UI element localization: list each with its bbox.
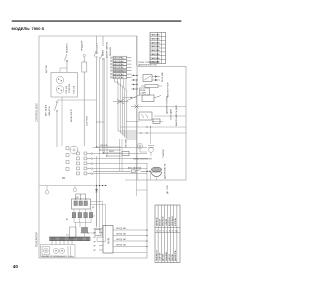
svg-text:АККУМУЛЯТОР: АККУМУЛЯТОР: [167, 82, 170, 97]
control box frame: [39, 36, 147, 258]
header rule bar: [12, 21, 182, 22]
svg-text:ГЕНЕРАТОР: ГЕНЕРАТОР: [35, 232, 39, 247]
svg-text:РАЗЪЁМ: РАЗЪЁМ: [109, 47, 112, 56]
label hourmeter wire (rotated): [86, 115, 89, 126]
diode D1 on wire: [95, 186, 98, 226]
wires CN1 to engine box: [132, 75, 138, 90]
label sockets (rotated): [69, 83, 71, 93]
lighting coil box L2: [139, 112, 152, 120]
relay box Z1: [95, 230, 101, 236]
label M4: [62, 177, 66, 180]
svg-text:ЛАМПА: ЛАМПА: [171, 254, 174, 261]
link wire y122: [96, 122, 104, 123]
svg-text:СВЕЧА ЗАЖИГАНИЯ: СВЕЧА ЗАЖИГАНИЯ: [133, 158, 152, 161]
svg-text:СТАРТ: СТАРТ: [140, 92, 147, 95]
pin block P1 column2: [77, 152, 93, 175]
svg-text:БЕЛ.КРАС: БЕЛ.КРАС: [113, 73, 124, 76]
breaker CB1: [55, 100, 97, 147]
svg-text:КРАСНЫЙ: КРАСНЫЙ: [162, 216, 165, 226]
svg-text:ЗАЩИТЫ: ЗАЩИТЫ: [48, 106, 51, 116]
capacitor C1: [80, 228, 95, 234]
wire dome down: [156, 178, 158, 181]
resistor R1: [141, 85, 162, 88]
page number 40: [13, 264, 19, 269]
svg-text:220В 30А: 220В 30А: [65, 85, 68, 94]
socket O1: [56, 76, 64, 84]
receptacle inner labels (rotated): [65, 85, 76, 94]
svg-text:ДВ. 7500: ДВ. 7500: [167, 185, 169, 194]
bottom left engine wires: [125, 180, 147, 190]
svg-text:ЗАРЯД. КАТ: ЗАРЯД. КАТ: [116, 233, 127, 236]
svg-text:СТОП ДВИГ.: СТОП ДВИГ.: [171, 108, 173, 120]
svg-text:М: М: [45, 249, 47, 253]
label bar X1: [66, 235, 69, 237]
svg-text:ПУЛЬТ УПРАВЛЕНИЯ: ПУЛЬТ УПРАВЛЕНИЯ: [138, 61, 160, 64]
svg-text:ЧЁРН: ЧЁРН: [109, 150, 115, 153]
label wires (rotated): [106, 42, 109, 58]
svg-text:СТАРТЕР: СТАРТЕР: [162, 148, 165, 158]
wire from SW1 into receptacle: [60, 68, 67, 73]
svg-text:МАССА: МАССА: [168, 254, 171, 261]
frame bottom segment: [113, 252, 147, 254]
svg-text:40: 40: [13, 264, 19, 269]
svg-text:КОРИЧН.: КОРИЧН.: [175, 217, 177, 226]
label fuse F1 (rotated): [82, 40, 84, 51]
AVR pins: [94, 228, 104, 252]
label switch SW1 (rotated): [67, 42, 69, 53]
connector bar X1 (hatched): [50, 237, 91, 241]
terminal table TB1: [150, 33, 166, 64]
svg-text:ЩИТОК: ЩИТОК: [46, 64, 48, 73]
charge coil box L1: [142, 95, 161, 102]
wire bends mid-left: [96, 146, 121, 156]
label starter (rotated): [162, 148, 165, 158]
wire bundle B1: [115, 79, 138, 139]
motor M starter: [42, 247, 50, 255]
svg-text:ЗАРЯД. КАТ: ЗАРЯД. КАТ: [116, 244, 127, 247]
svg-text:СИНИЙ: СИНИЙ: [165, 219, 168, 226]
svg-text:С1: С1: [93, 216, 95, 218]
junction X node B: [131, 105, 142, 109]
harness wires H1: [93, 148, 147, 174]
svg-text:ВЫКЛЮЧ.: ВЫКЛЮЧ.: [67, 42, 69, 53]
label rectifier: [76, 197, 79, 199]
label harness rows: [100, 144, 115, 153]
label oil sensor (rotated): [164, 163, 167, 179]
connector stack CN1: [110, 56, 131, 79]
receptacle box: [51, 73, 77, 98]
AVR box U1: [103, 226, 113, 254]
socket O2: [56, 86, 64, 94]
wire spark cluster: [140, 149, 151, 156]
wire long vertical x136: [136, 36, 138, 196]
fuse F1: [82, 54, 87, 146]
svg-text:ГЕНЕРАТОР: ГЕНЕРАТОР: [155, 249, 158, 261]
label under table: [138, 61, 160, 67]
ignition coil T1: [148, 146, 154, 153]
svg-text:12В 8.3А: 12В 8.3А: [100, 144, 108, 147]
label fuel (rotated): [166, 96, 169, 114]
wires down from bends: [104, 52, 107, 156]
junction X node A: [113, 99, 128, 104]
label diode block: [66, 207, 95, 221]
fuel valve box V1: [153, 119, 160, 124]
svg-text:ЧЁРНЫЙ: ЧЁРНЫЙ: [155, 217, 158, 226]
winding stub: [68, 246, 71, 255]
wire row y133: [137, 132, 187, 133]
svg-text:МОДЕЛЬ: 7500 S: МОДЕЛЬ: 7500 S: [12, 26, 45, 31]
label stop switch (rotated): [171, 108, 173, 120]
bus under diodes: [74, 223, 91, 228]
svg-text:РОЗЕТКИ: РОЗЕТКИ: [69, 83, 71, 93]
svg-text:АВТ. ЗАЩИТА: АВТ. ЗАЩИТА: [128, 167, 142, 170]
connector box CN3: [70, 227, 77, 238]
svg-text:БЕЛЫЙ: БЕЛЫЙ: [159, 219, 162, 226]
label switch S3 (rotated): [103, 49, 105, 56]
AVR feed corner wires: [91, 202, 106, 242]
coil wires right: [126, 107, 186, 122]
svg-text:ЗАРЯД. КАТ: ЗАРЯД. КАТ: [116, 227, 127, 230]
hour meter M1: [70, 146, 78, 154]
svg-text:Ж: Ж: [169, 230, 171, 232]
svg-text:СЧЁТЧИК: СЧЁТЧИК: [86, 115, 89, 126]
svg-text:АВТ. ВЫКЛ.: АВТ. ВЫКЛ.: [45, 104, 48, 116]
svg-text:ГЕНЕРАТОР ПЕРЕМЕННОГО ТОКА: ГЕНЕРАТОР ПЕРЕМЕННОГО ТОКА: [41, 255, 73, 258]
label wires 2 (rotated): [109, 47, 112, 56]
pin block P1 column1: [66, 147, 69, 171]
label engine model (rotated): [167, 185, 169, 194]
svg-text:АВТ.ВЫКЛ: АВТ.ВЫКЛ: [96, 43, 99, 54]
diode squares D2 D3 D4 D5: [72, 209, 93, 223]
svg-text:СЧЁТЧИК: СЧЁТЧИК: [125, 138, 128, 148]
svg-text:ЗАРЯД. КАТ: ЗАРЯД. КАТ: [116, 238, 127, 241]
label under generator: [41, 255, 73, 258]
svg-text:СТАРТЕР: СТАРТЕР: [159, 252, 162, 261]
switch SW1: [65, 54, 68, 72]
vertical wire x150 to table: [150, 127, 152, 180]
label CONTROL BOX (rotated): [35, 103, 39, 122]
svg-text:ВОЛЬТМЕТР: ВОЛЬТМЕТР: [71, 108, 73, 122]
spark plug E1: [137, 143, 142, 148]
page title МОДЕЛЬ: 7500 S: [12, 26, 45, 31]
svg-text:БЕЛ.КРАС: БЕЛ.КРАС: [113, 60, 124, 63]
svg-text:ВЫКЛЮЧАТЕЛЬ ДВИГ.: ВЫКЛЮЧАТЕЛЬ ДВИГ.: [175, 104, 178, 126]
svg-text:ДАТЧИК: ДАТЧИК: [162, 253, 165, 261]
wire bundle into box: [120, 139, 123, 171]
wire y97.5: [122, 97, 137, 98]
svg-text:ДАТЧИК ТОПЛИВА: ДАТЧИК ТОПЛИВА: [166, 96, 169, 114]
AVR right harness wires: [113, 227, 148, 247]
svg-text:220В 15А: 220В 15А: [73, 85, 76, 94]
svg-text:Д2: Д2: [92, 207, 94, 209]
label generator (rotated): [35, 232, 39, 247]
svg-text:AVR: AVR: [107, 237, 111, 244]
wire from S2 down: [96, 62, 98, 147]
svg-text:ЗЕЛЁНЫЙ: ЗЕЛЁНЫЙ: [171, 216, 174, 226]
rectifier block RB1: [72, 194, 91, 209]
label breaker CB1 (rotated): [45, 104, 52, 116]
wires bar to generator: [52, 241, 72, 245]
diode pair D5: [152, 75, 160, 81]
wire receptacle down: [61, 97, 63, 146]
svg-text:ДАТЧИК МАСЛА: ДАТЧИК МАСЛА: [164, 163, 167, 179]
svg-text:ЗАЖИГАН.: ЗАЖИГАН.: [165, 251, 168, 261]
svg-text:РЕЛЕ ЗАР.: РЕЛЕ ЗАР.: [161, 72, 164, 82]
generator box: [41, 245, 76, 258]
label inline breaker: [128, 167, 142, 170]
svg-text:ПРЕДОХР.: ПРЕДОХР.: [82, 40, 84, 51]
relay K1: [143, 75, 152, 82]
wire pair down to AVR: [97, 57, 100, 226]
label battery (rotated): [167, 82, 170, 97]
resistor R2 on harness: [122, 138, 129, 155]
svg-text:ЖЁЛТЫЙ: ЖЁЛТЫЙ: [168, 217, 171, 226]
wires down to AVR pins: [97, 226, 100, 241]
label engine switch (rotated): [175, 104, 178, 126]
legend table T2: [155, 205, 180, 263]
wire from S3 down: [102, 64, 104, 153]
label voltmeter wire (rotated): [71, 108, 73, 122]
label switch S2 (rotated): [96, 43, 99, 54]
svg-text:ДВИГАТЕЛЕМ 7500: ДВИГАТЕЛЕМ 7500: [138, 64, 158, 67]
label panel (rotated): [46, 64, 48, 73]
ground bus: [40, 185, 108, 194]
switch S3: [101, 36, 104, 64]
svg-text:БЕЛ.КРАС: БЕЛ.КРАС: [113, 57, 124, 60]
svg-text:БЕЛ.КРАС: БЕЛ.КРАС: [113, 63, 124, 66]
engine box frame: [137, 67, 186, 181]
spark row text: [133, 158, 152, 161]
label relay (rotated): [161, 72, 164, 82]
svg-text:ДВИГАТЕЛЬ: ДВИГАТЕЛЬ: [174, 249, 177, 261]
svg-text:БЕЛ.КРАС: БЕЛ.КРАС: [113, 66, 124, 69]
svg-text:В1: В1: [66, 219, 68, 221]
oil sensor dome: [151, 167, 162, 176]
switch S2: [94, 36, 97, 62]
wires rect area to bar: [76, 223, 86, 238]
brush rings: [53, 248, 64, 253]
wire row y127: [121, 126, 187, 127]
svg-text:CONTROL BOX: CONTROL BOX: [35, 103, 39, 122]
bus wire with inline breaker: [93, 170, 151, 173]
starter relay box K2: [127, 88, 150, 101]
svg-text:БЕЛ.КРАС: БЕЛ.КРАС: [113, 76, 124, 79]
